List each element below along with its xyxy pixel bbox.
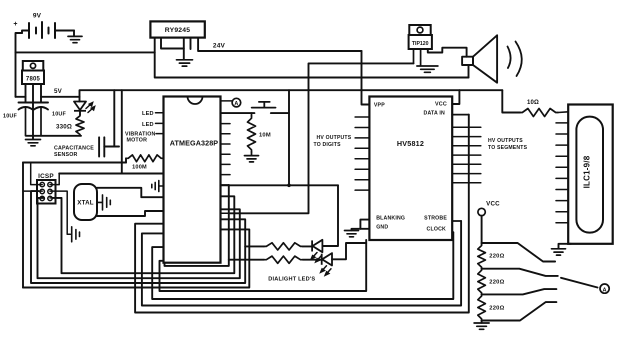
wire LED to resistor: [79, 111, 81, 115]
svg-text:A: A: [602, 287, 606, 293]
pin stub HV5812 right 2: [452, 136, 481, 138]
ground at ILC display: [552, 249, 566, 255]
pin stub ILC left 4: [556, 155, 568, 157]
wire ATMEGA to TIP120 base: [230, 63, 414, 213]
wire ICSP pin1 to sensor line: [31, 163, 43, 185]
svg-text:100M: 100M: [132, 165, 147, 171]
wire ground stem: [73, 31, 75, 37]
LED D2 dialight: [312, 240, 322, 252]
wire 5V to pushbutton vertical: [288, 90, 290, 185]
svg-text:9V: 9V: [33, 13, 42, 20]
wire tap4 to contact4: [482, 302, 557, 320]
wire to indicator LED: [79, 97, 81, 102]
ground at 10M: [245, 156, 259, 162]
ground at regulator: [26, 140, 41, 146]
svg-text:ILC1-9/8: ILC1-9/8: [583, 155, 592, 188]
wire BLANKING down: [360, 220, 369, 229]
pin stub ILC left 7: [556, 189, 568, 191]
svg-text:VCC: VCC: [486, 201, 500, 208]
display DS1 inner glass: [576, 117, 603, 233]
pin stub HV5812 right 5: [452, 163, 481, 165]
wire tap2 to contact2: [482, 269, 558, 276]
wire C2 to ground rail: [40, 108, 42, 136]
wire TIP120 collector to speaker: [428, 48, 467, 57]
wire data bus ATMEGA-HV5812: [135, 115, 469, 313]
wire LED2 cathode to HV bus: [332, 243, 366, 259]
pin stub HV5812 left 4: [355, 147, 369, 149]
pin stub ATMEGA right y134: [221, 133, 231, 135]
pin stub to node A: [221, 100, 233, 102]
wire relay 24V output rail: [198, 38, 361, 51]
wire 7805 ground leg: [32, 84, 34, 136]
wire ATMEGA pin to dialight LED1: [221, 184, 339, 186]
LED D1 power indicator: [74, 102, 86, 111]
pin stub ILC left 1: [556, 122, 568, 124]
wire 5V pullup down to reset line: [121, 90, 123, 173]
battery B1 9V: [29, 22, 55, 38]
regulator U2 tab: [23, 61, 44, 71]
pin stub ILC left 10: [556, 222, 568, 224]
wire 10ohm to ILC pin1: [558, 111, 568, 114]
wire resistor to LED1: [303, 245, 312, 247]
wire battery positive to ground tap: [55, 30, 74, 32]
pin stub ILC left 2: [556, 133, 568, 135]
wire resistor to LED2: [303, 259, 321, 261]
wire HV5812 STROBE stub: [452, 220, 461, 222]
pin stub ILC left 5: [556, 166, 568, 168]
wire selector wiper: [561, 278, 598, 288]
pin stub HV5812 right 3: [452, 145, 481, 147]
wire strobe bus: [142, 221, 461, 306]
ground at XTAL: [103, 195, 111, 210]
svg-text:LED: LED: [142, 122, 154, 128]
svg-text:HV OUTPUTS: HV OUTPUTS: [488, 138, 523, 144]
resistor R5 dialight: [264, 256, 303, 263]
svg-text:220Ω: 220Ω: [489, 306, 504, 312]
svg-text:SENSOR: SENSOR: [54, 152, 78, 158]
regulator tab hole: [30, 63, 35, 68]
speaker LS1 horn: [462, 35, 497, 82]
svg-text:220Ω: 220Ω: [489, 280, 504, 286]
pin stub: [221, 184, 229, 186]
wire U-wrap pin to box bottom: [165, 185, 229, 266]
node A (ATMEGA): [232, 98, 241, 107]
svg-text:A: A: [234, 101, 238, 107]
wire ICSP pin5 stub: [38, 197, 43, 199]
wire 9V rail up to speaker: [468, 65, 470, 78]
display DS1 ILC1-9/8 outer: [568, 105, 613, 244]
svg-text:TO DIGITS: TO DIGITS: [314, 142, 342, 148]
LED D3 dialight: [322, 253, 332, 265]
pin stub: [221, 212, 231, 214]
wire relay pin stub: [190, 38, 192, 49]
LED D3 arrows: [321, 266, 331, 275]
wire ICSP pin2 up to reset line: [50, 174, 59, 185]
pin stub HV5812 right 7: [452, 182, 481, 184]
pin stub HV5812 left 7: [355, 179, 369, 181]
pin stub ATMEGA right y154: [221, 153, 231, 155]
svg-text:10M: 10M: [259, 133, 271, 139]
relay K1 RY9245: [150, 21, 204, 37]
svg-text:LED: LED: [142, 111, 154, 117]
transistor Q1 TIP120 body: [409, 35, 432, 49]
wire sensor cap lead: [104, 146, 119, 148]
wire clock bus: [152, 232, 453, 299]
ground at resistor chain: [474, 323, 489, 329]
svg-text:10UF: 10UF: [3, 114, 17, 120]
ICSP pin holes: [40, 182, 44, 186]
pin stub ATMEGA right y124: [221, 123, 231, 125]
wire relay coil pin: [161, 38, 184, 49]
wire tap1 to contact1: [482, 243, 555, 262]
svg-text:MOTOR: MOTOR: [127, 138, 148, 144]
LED D2 arrows: [311, 253, 321, 262]
wire HV5812 DATA IN stub: [452, 114, 469, 116]
resistor R8 220: [478, 269, 486, 295]
pin stub ATMEGA right y175: [221, 174, 231, 176]
resistor R9 220: [478, 294, 486, 320]
wire blanking bus to HV5812 bottom: [160, 240, 367, 291]
svg-text:220Ω: 220Ω: [489, 254, 504, 260]
wire 5V down to sensor cap: [113, 90, 115, 146]
transistor tab hole: [417, 27, 423, 33]
capacitor C1 10UF: [19, 103, 33, 110]
pin stub HV5812 left 5: [355, 158, 369, 160]
pin stub LED1: [156, 112, 164, 114]
wire HV5812 VCC to 5V rail: [452, 90, 459, 104]
svg-text:GND: GND: [376, 225, 388, 231]
wire GND stub: [352, 229, 370, 231]
pin stub HV5812 left 3: [355, 137, 369, 139]
resistor R2 100M: [126, 155, 164, 162]
ground at ICSP: [72, 227, 80, 242]
svg-text:BLANKING: BLANKING: [376, 216, 405, 222]
wire to dialight resistor 1: [245, 245, 264, 247]
connector J1 ICSP: [37, 180, 56, 204]
ground at ATMEGA pin: [152, 181, 159, 192]
svg-text:DATA IN: DATA IN: [424, 110, 446, 116]
ground at HV5812: [345, 231, 359, 237]
wire input to 7805: [16, 96, 26, 98]
svg-text:RY9245: RY9245: [165, 27, 191, 34]
wire 100M to sensor line: [125, 158, 127, 162]
svg-text:VPP: VPP: [374, 103, 385, 109]
wire VCC to chain: [481, 216, 483, 244]
svg-text:XTAL: XTAL: [77, 200, 94, 207]
pin stub HV5812 left 2: [355, 127, 369, 129]
capacitor sensor plates: [99, 137, 104, 156]
pin stub HV5812 right 1: [452, 126, 481, 128]
wire tap3 to contact3: [482, 289, 557, 294]
wire XTAL1 to ATMEGA: [97, 188, 164, 197]
wire HV5812 CLOCK stub: [452, 231, 453, 233]
wire ICSP pin3 stub: [23, 190, 42, 192]
svg-text:HV OUTPUTS: HV OUTPUTS: [317, 135, 352, 141]
pin stub ILC left 8: [556, 200, 568, 202]
svg-text:+: +: [13, 21, 17, 28]
pin stub LED2: [156, 122, 164, 124]
svg-text:7805: 7805: [26, 77, 41, 83]
pin stub ILC left 6: [556, 177, 568, 179]
crystal X1 XTAL: [74, 184, 97, 220]
wire XTAL2 to ATMEGA: [97, 211, 164, 216]
resistor R4 dialight: [264, 243, 303, 250]
pin stub vibration motor: [156, 133, 164, 135]
pin stub HV5812 right 4: [452, 154, 481, 156]
wire 24V down to HV5812 VPP: [362, 51, 370, 105]
wire ground stem: [32, 136, 34, 139]
wire TIP120 base leg: [413, 49, 415, 63]
wire to bottom bus from ATMEGA: [23, 229, 249, 287]
IC U1 ATMEGA328P body: [164, 97, 221, 263]
wire 9V bus to relay: [16, 51, 155, 53]
svg-text:TIP120: TIP120: [412, 41, 429, 47]
IC U3 HV5812 body: [369, 97, 452, 241]
svg-text:5V: 5V: [54, 88, 63, 95]
wire 7805 output 5V: [41, 96, 80, 98]
wire LED1 cathode up: [322, 185, 338, 246]
wire sensor line down to bottom bus: [22, 163, 24, 288]
svg-text:CAPACITANCE: CAPACITANCE: [54, 146, 94, 152]
svg-text:DIALIGHT LED'S: DIALIGHT LED'S: [268, 276, 315, 282]
pin stub ILC left 3: [556, 144, 568, 146]
pin stub ATMEGA right y144: [221, 143, 231, 145]
resistor R1 330: [76, 115, 84, 136]
svg-text:CLOCK: CLOCK: [427, 227, 446, 233]
wire to pushbutton left contact: [221, 112, 255, 114]
wire to ICSP pin5: [38, 198, 240, 278]
wire ground rail under caps: [26, 135, 81, 137]
node A (selector): [600, 284, 609, 293]
svg-text:TO SEGMENTS: TO SEGMENTS: [488, 145, 528, 151]
capacitor C2 10UF: [34, 103, 48, 110]
wire 7805 output leg: [40, 84, 42, 103]
wire 7805 input leg: [25, 84, 27, 103]
svg-text:10UF: 10UF: [52, 112, 66, 118]
wire to ICSP pin6: [52, 196, 234, 273]
wire sensor electrode line: [23, 162, 126, 164]
svg-text:HV5812: HV5812: [397, 139, 424, 148]
pin stub HV5812 left 6: [355, 168, 369, 170]
wire 5V rail: [80, 90, 503, 97]
speaker sound waves: [508, 47, 511, 69]
resistor R7 220: [478, 244, 486, 269]
wire 9V rail to speaker: [155, 52, 469, 77]
wire ICSP to ATMEGA reset: [59, 173, 163, 175]
wire battery negative down to 7805 input: [16, 33, 23, 97]
wire ICSP pin6 stub: [50, 197, 62, 199]
wire pushbutton right contact: [271, 112, 289, 114]
wire chain to ground: [481, 321, 483, 323]
wire battery negative lead: [22, 31, 29, 34]
wire XTAL to ground: [97, 201, 102, 203]
transistor Q1 tab: [409, 25, 430, 35]
wire ILC to ground: [559, 244, 572, 249]
wire relay pin to 9V bus: [154, 38, 156, 53]
pin stub ATMEGA right y164: [221, 163, 231, 165]
resistor R6 10 ohm: [520, 109, 558, 117]
IC U1 notch: [188, 97, 203, 105]
wire to ICSP pin3: [31, 191, 245, 283]
pin stub ILC left 9: [556, 211, 568, 213]
wire TIP120 emitter leg: [420, 49, 422, 66]
regulator U2 7805 body: [22, 71, 44, 85]
pin stub HV5812 right 6: [452, 173, 481, 175]
svg-text:ATMEGA328P: ATMEGA328P: [170, 139, 219, 148]
ground at battery: [68, 36, 82, 42]
wire relay pin to ground: [183, 38, 185, 60]
terminal VCC: [478, 208, 485, 215]
ground at relay: [177, 60, 193, 66]
svg-text:VCC: VCC: [435, 102, 447, 108]
svg-text:VIBRATION: VIBRATION: [125, 131, 156, 137]
svg-text:10Ω: 10Ω: [527, 100, 539, 106]
svg-text:24V: 24V: [213, 43, 226, 50]
wire C1 to ground rail: [25, 108, 27, 136]
LED D1 light arrows: [86, 103, 95, 113]
svg-text:STROBE: STROBE: [424, 216, 447, 222]
svg-text:330Ω: 330Ω: [56, 124, 72, 131]
pin stub HV5812 left 8: [355, 189, 369, 191]
svg-text:ICSP: ICSP: [38, 173, 54, 180]
wire to 10M: [251, 113, 253, 116]
wire 5V rail down to 10ohm: [502, 90, 520, 112]
ground at TIP120: [417, 66, 438, 72]
pin stub HV5812 left 1: [355, 116, 369, 118]
pushbutton S1: [252, 102, 276, 108]
wire ICSP pin4 to ground: [50, 191, 70, 234]
wire 10M to ground: [251, 152, 253, 155]
pin stub ground ATMEGA left: [159, 185, 164, 187]
wire to dialight resistor 2: [229, 259, 264, 261]
resistor R3 10M: [248, 116, 256, 152]
